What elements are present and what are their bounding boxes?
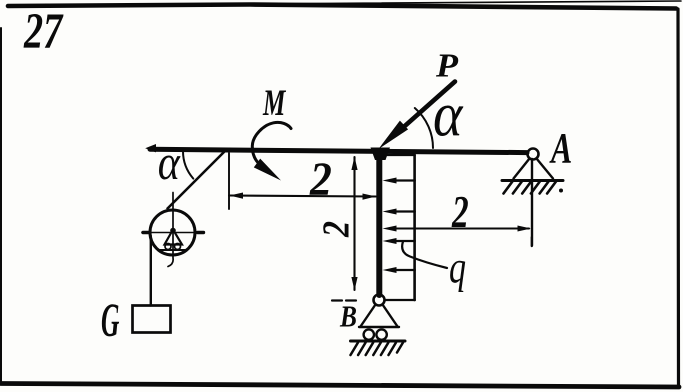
svg-text:M: M bbox=[262, 82, 286, 123]
svg-text:B: B bbox=[339, 300, 357, 334]
svg-text:27: 27 bbox=[23, 3, 64, 60]
svg-text:2: 2 bbox=[309, 152, 332, 205]
svg-text:α: α bbox=[158, 135, 181, 190]
svg-text:A: A bbox=[549, 125, 572, 173]
svg-text:2: 2 bbox=[315, 221, 357, 238]
svg-text:G: G bbox=[101, 295, 120, 347]
svg-text:2: 2 bbox=[451, 187, 468, 237]
svg-text:α: α bbox=[433, 79, 464, 149]
svg-text:q: q bbox=[449, 242, 466, 293]
